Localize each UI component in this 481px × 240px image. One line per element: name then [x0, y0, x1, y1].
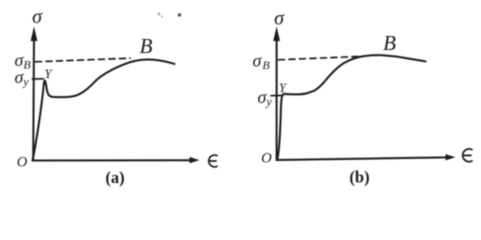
horizontal axis arrowhead (b)	[446, 154, 456, 160]
epsilon axis label (b)	[463, 149, 472, 162]
sigma_y tick (a)	[33, 78, 44, 80]
sigma_y tick (b)	[271, 94, 283, 96]
svg-text:σ: σ	[32, 6, 43, 28]
epsilon axis label (a)	[209, 155, 217, 167]
vertical axis arrowhead (a)	[31, 27, 38, 42]
horizontal axis (a)	[33, 159, 192, 161]
vertical axis arrowhead (b)	[273, 27, 280, 42]
svg-text:B: B	[383, 31, 396, 55]
vertical axis (a)	[32, 38, 35, 161]
svg-text:O: O	[261, 151, 272, 167]
svg-text:σ: σ	[274, 8, 285, 30]
stress-strain curve (b)	[277, 55, 425, 160]
svg-text:Y: Y	[45, 67, 54, 81]
stress-strain curve (a)	[33, 60, 175, 161]
horizontal axis arrowhead (a)	[190, 157, 200, 163]
sigma_B dashed level line (a)	[36, 58, 131, 62]
vertical axis (b)	[276, 38, 278, 160]
svg-text:σy: σy	[258, 87, 273, 109]
svg-text:σB: σB	[253, 51, 271, 73]
svg-text:(b): (b)	[349, 168, 369, 187]
sigma_B dashed level line (b)	[279, 56, 362, 59]
svg-text:Y: Y	[279, 81, 288, 95]
speck dots top of plot (a)	[158, 13, 182, 18]
svg-text:(a): (a)	[105, 168, 124, 187]
svg-text:B: B	[140, 34, 153, 58]
svg-text:O: O	[17, 155, 28, 171]
horizontal axis (b)	[277, 157, 447, 160]
